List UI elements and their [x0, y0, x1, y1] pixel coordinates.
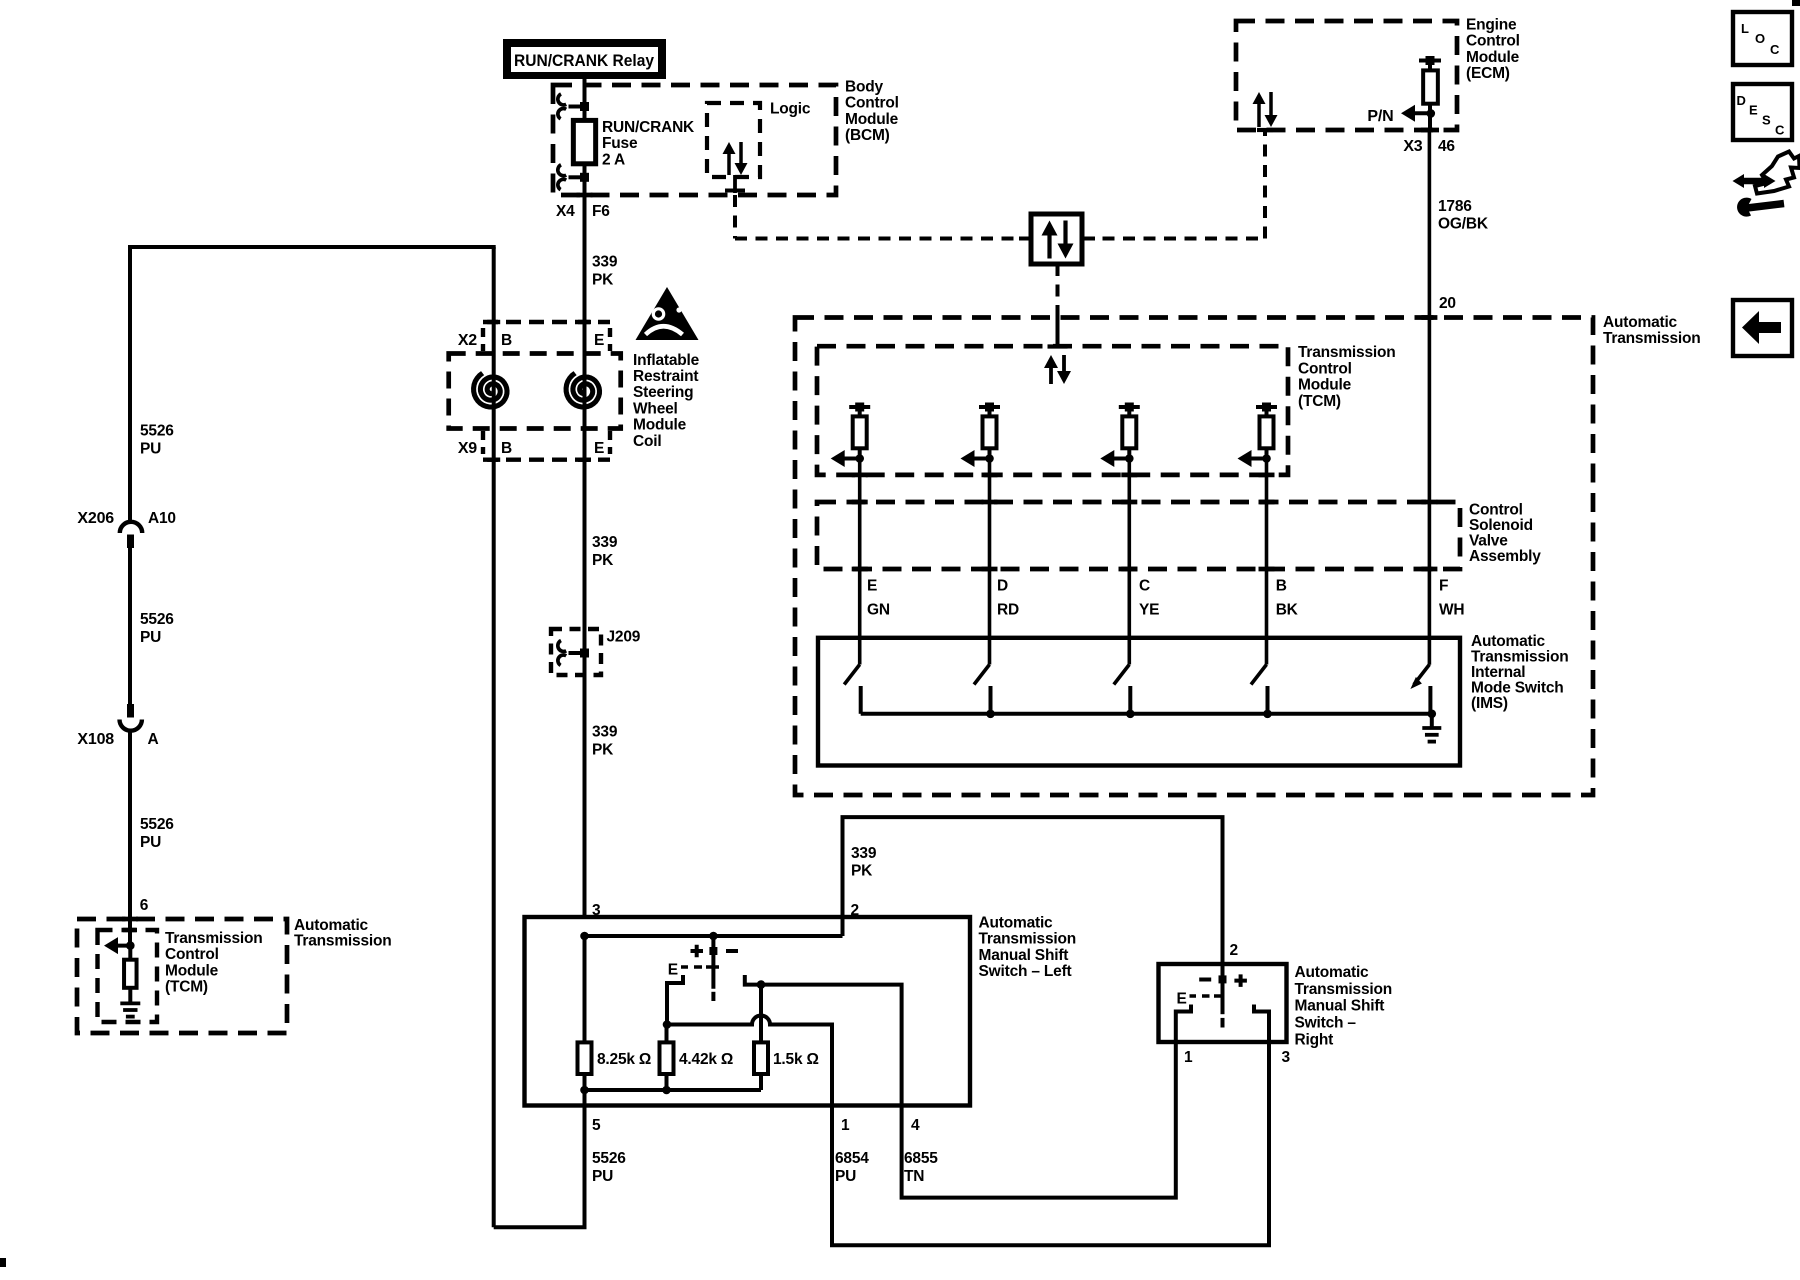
- bus junction: [1263, 710, 1272, 719]
- resistor 4.42k: [665, 1025, 669, 1043]
- Transmission Control Module (TCM) dashed box: [817, 346, 1288, 475]
- svg-text:Control: Control: [165, 946, 219, 963]
- svg-text:PK: PK: [592, 552, 614, 569]
- svg-text:4.42k Ω: 4.42k Ω: [679, 1051, 733, 1068]
- svg-text:Mode Switch: Mode Switch: [1471, 680, 1564, 697]
- svg-text:Fuse: Fuse: [602, 135, 638, 152]
- icon back arrow: [1733, 300, 1792, 356]
- Logic dashed box: [707, 103, 760, 177]
- connector row X9 B E: [483, 458, 610, 462]
- TCM driver resistor 3: [1119, 403, 1140, 459]
- svg-text:Coil: Coil: [633, 433, 661, 450]
- Body Control Module (BCM) dashed box: [553, 85, 836, 195]
- connector X108 pin A: [120, 704, 142, 731]
- TCM output node 1 with arrow: [855, 454, 864, 463]
- Automatic Transmission Manual Shift Switch - Left box: [525, 917, 971, 1106]
- wire E node to pin 1 with hop: [667, 1016, 832, 1106]
- svg-text:Module: Module: [1298, 377, 1352, 394]
- Automatic Transmission dashed box (bottom left): [77, 919, 287, 1033]
- svg-text:(ECM): (ECM): [1466, 65, 1510, 82]
- right rocker right contact to pin 3: [1254, 1005, 1269, 1043]
- IMS switch 2: [974, 665, 991, 714]
- svg-text:RD: RD: [997, 602, 1019, 619]
- svg-text:Right: Right: [1295, 1031, 1334, 1048]
- svg-text:Module: Module: [633, 417, 687, 434]
- svg-text:1786: 1786: [1438, 198, 1472, 215]
- svg-text:5526: 5526: [140, 422, 174, 439]
- relay terminal hook upper (X4): [558, 94, 589, 119]
- RUN/CRANK Relay title box: [503, 39, 666, 79]
- svg-text:X2: X2: [458, 332, 477, 349]
- svg-text:2: 2: [1230, 942, 1238, 959]
- bus junction: [986, 710, 995, 719]
- relay terminal hook lower (F6): [558, 165, 589, 190]
- svg-text:YE: YE: [1139, 602, 1159, 619]
- Automatic Transmission Manual Shift Switch - Right box: [1159, 964, 1287, 1042]
- svg-text:O: O: [1755, 31, 1765, 46]
- svg-text:S: S: [1762, 113, 1771, 128]
- Inflatable Restraint Steering Wheel Module Coil dashed box: [449, 354, 621, 429]
- TCM driver resistor 4: [1256, 403, 1277, 459]
- IMS switch 5 (wiper): [1410, 665, 1430, 714]
- svg-text:Automatic: Automatic: [1295, 964, 1370, 981]
- Control Solenoid Valve Assembly dashed box: [817, 502, 1460, 569]
- IMS switch 1: [844, 665, 861, 714]
- svg-text:Control: Control: [1466, 33, 1520, 50]
- svg-text:PU: PU: [140, 834, 161, 851]
- resistor 8.25k: [583, 936, 587, 1042]
- svg-text:TN: TN: [904, 1168, 924, 1185]
- serial data dashed wire splice to ECM: [1082, 237, 1265, 241]
- wire 5526 PU pin5 to coil branch: [494, 1106, 585, 1228]
- TCM driver resistor 2: [979, 403, 1000, 459]
- IMS common bus: [861, 712, 1432, 716]
- svg-text:Restraint: Restraint: [633, 368, 698, 385]
- right rocker minus: [1199, 978, 1211, 982]
- right rocker actuator: [1221, 964, 1225, 1014]
- svg-text:6855: 6855: [904, 1150, 938, 1167]
- svg-text:Switch –: Switch –: [1295, 1015, 1357, 1032]
- svg-text:Control: Control: [845, 95, 899, 112]
- tick wire exits BCM box: [577, 193, 593, 198]
- bus end dot: [1428, 710, 1437, 719]
- wire 1786 OG/BK ECM to IMS: [1428, 130, 1432, 665]
- wire TCM to IMS 3: [1128, 459, 1132, 665]
- svg-text:339: 339: [851, 845, 877, 862]
- svg-text:339: 339: [592, 253, 618, 270]
- wire rocker to 1.5k: [759, 985, 763, 1043]
- svg-text:WH: WH: [1439, 602, 1464, 619]
- svg-text:Transmission: Transmission: [1603, 330, 1701, 347]
- svg-text:Switch – Left: Switch – Left: [979, 963, 1072, 980]
- svg-text:Transmission: Transmission: [294, 933, 392, 950]
- svg-text:Manual Shift: Manual Shift: [1295, 998, 1385, 1015]
- svg-text:X3: X3: [1403, 138, 1422, 155]
- TCM pull-down resistor: [128, 946, 132, 960]
- TCM input node with arrow: [126, 941, 135, 950]
- svg-text:X108: X108: [77, 731, 114, 748]
- Logic stub to BCM edge: [733, 175, 737, 193]
- coil spiral E: [566, 373, 599, 407]
- ECM pull-up resistor: [1419, 56, 1441, 130]
- svg-text:PU: PU: [835, 1168, 856, 1185]
- svg-text:Wheel: Wheel: [633, 400, 678, 417]
- IMS switch 4: [1251, 665, 1268, 714]
- svg-text:PK: PK: [592, 271, 614, 288]
- F wire ticks: [1421, 315, 1437, 320]
- svg-text:E: E: [668, 962, 678, 979]
- left branch top corner wire 5526 PU: [128, 247, 132, 521]
- svg-text:J209: J209: [607, 629, 641, 646]
- svg-text:1.5k Ω: 1.5k Ω: [773, 1051, 819, 1068]
- svg-text:B: B: [1276, 578, 1287, 595]
- tick wire exits ECM: [1421, 128, 1439, 133]
- svg-text:Control: Control: [1298, 360, 1352, 377]
- svg-text:D: D: [997, 578, 1008, 595]
- svg-text:Automatic: Automatic: [1471, 633, 1546, 650]
- IMS switch 3: [1114, 665, 1131, 714]
- svg-text:E: E: [867, 578, 877, 595]
- icon DESC: [1733, 84, 1792, 140]
- svg-text:Logic: Logic: [770, 101, 811, 118]
- svg-text:Automatic: Automatic: [979, 914, 1054, 931]
- svg-text:PK: PK: [592, 742, 614, 759]
- left rocker minus: [726, 949, 738, 953]
- svg-text:Steering: Steering: [633, 384, 693, 401]
- svg-text:Solenoid: Solenoid: [1469, 517, 1533, 534]
- svg-text:(IMS): (IMS): [1471, 695, 1508, 712]
- svg-text:Valve: Valve: [1469, 533, 1508, 550]
- Automatic Transmission dashed box (main): [795, 318, 1593, 796]
- svg-text:Inflatable: Inflatable: [633, 352, 700, 369]
- svg-text:(BCM): (BCM): [845, 127, 890, 144]
- ECM serial data arrows: [1253, 92, 1278, 127]
- svg-text:6: 6: [140, 897, 149, 914]
- svg-text:PU: PU: [140, 629, 161, 646]
- splice J209: [551, 629, 601, 675]
- svg-text:GN: GN: [867, 602, 890, 619]
- IMS ground: [1430, 714, 1434, 728]
- svg-text:X206: X206: [77, 510, 114, 527]
- svg-text:Transmission: Transmission: [1298, 344, 1396, 361]
- svg-text:E: E: [594, 440, 604, 457]
- svg-text:339: 339: [592, 723, 618, 740]
- svg-text:P/N: P/N: [1367, 108, 1393, 125]
- resistor 1.5k: [754, 1042, 768, 1074]
- left rocker actuator: [711, 936, 715, 989]
- svg-text:X9: X9: [458, 440, 477, 457]
- serial data dashed wire BCM to splice box: [733, 195, 737, 239]
- svg-text:46: 46: [1438, 138, 1455, 155]
- svg-text:F: F: [1439, 578, 1448, 595]
- left rocker plus: [691, 945, 704, 958]
- svg-text:Transmission: Transmission: [1471, 648, 1569, 665]
- svg-text:A: A: [148, 731, 159, 748]
- svg-text:4: 4: [911, 1117, 920, 1134]
- svg-text:D: D: [1737, 93, 1746, 108]
- svg-text:Module: Module: [1466, 49, 1520, 66]
- right rocker plus: [1234, 974, 1247, 987]
- wire 339 PK from relay through fuse: [583, 79, 587, 917]
- bus junction: [1126, 710, 1135, 719]
- svg-text:5: 5: [592, 1117, 601, 1134]
- wire 6855 TN pin4 to right switch pin1: [902, 1042, 1176, 1198]
- TCM output node 3 with arrow: [1125, 454, 1134, 463]
- connector X206 pin A10: [120, 522, 142, 548]
- svg-text:Control: Control: [1469, 501, 1523, 518]
- svg-text:L: L: [1741, 21, 1749, 36]
- Logic serial data arrows: [723, 142, 748, 175]
- right rocker left contact to pin 1: [1176, 1005, 1191, 1043]
- svg-text:C: C: [1770, 42, 1780, 57]
- svg-text:Engine: Engine: [1466, 16, 1517, 33]
- TCM output node 4 with arrow: [1262, 454, 1271, 463]
- icon wrench pointer: [1733, 152, 1800, 217]
- svg-text:Module: Module: [165, 962, 219, 979]
- connector row X2 B E: [483, 320, 610, 324]
- P/N node arrow: [1427, 109, 1436, 118]
- svg-text:(TCM): (TCM): [1298, 393, 1341, 410]
- svg-text:PK: PK: [851, 862, 873, 879]
- airbag warning triangle: [636, 287, 699, 340]
- svg-text:C: C: [1139, 578, 1150, 595]
- svg-text:Internal: Internal: [1471, 664, 1525, 681]
- TCM ground: [128, 988, 132, 1004]
- svg-text:Body: Body: [845, 78, 884, 95]
- fuse F6 RUN/CRANK 2 A: [573, 120, 595, 163]
- svg-text:X4: X4: [556, 203, 575, 220]
- svg-text:2 A: 2 A: [602, 151, 625, 168]
- svg-text:Assembly: Assembly: [1469, 548, 1541, 565]
- wire 6854 PU pin1 to right switch pin3: [832, 1042, 1269, 1245]
- TCM driver resistor 1: [849, 403, 870, 459]
- svg-text:Transmission: Transmission: [1295, 981, 1393, 998]
- svg-text:8.25k Ω: 8.25k Ω: [597, 1051, 651, 1068]
- coil spiral B: [474, 373, 507, 407]
- svg-text:5526: 5526: [140, 611, 174, 628]
- wire 339 PK branch to shift switches: [841, 817, 845, 936]
- svg-text:E: E: [1177, 991, 1187, 1008]
- svg-text:5526: 5526: [592, 1150, 626, 1167]
- icon LOC: [1733, 12, 1792, 65]
- svg-text:Transmission: Transmission: [979, 931, 1077, 948]
- svg-text:Automatic: Automatic: [1603, 314, 1678, 331]
- svg-text:339: 339: [592, 534, 618, 551]
- svg-text:RUN/CRANK Relay: RUN/CRANK Relay: [514, 52, 655, 70]
- svg-text:Manual Shift: Manual Shift: [979, 947, 1069, 964]
- serial data wire splice down to TCM: [1056, 264, 1060, 313]
- Engine Control Module (ECM) dashed box: [1236, 21, 1457, 130]
- wire rocker to pin 4: [761, 985, 902, 1106]
- svg-text:F6: F6: [592, 203, 610, 220]
- svg-text:E: E: [1749, 103, 1758, 118]
- svg-text:RUN/CRANK: RUN/CRANK: [602, 119, 695, 136]
- svg-text:BK: BK: [1276, 602, 1299, 619]
- svg-text:3: 3: [1282, 1049, 1291, 1066]
- wire bus to pin 5: [583, 1090, 587, 1106]
- wire TCM to IMS 1: [858, 459, 862, 665]
- svg-text:1: 1: [841, 1117, 850, 1134]
- wire TCM to IMS 2: [988, 459, 992, 665]
- svg-text:(TCM): (TCM): [165, 979, 208, 996]
- Automatic Transmission Internal Mode Switch (IMS) box: [818, 638, 1460, 766]
- J209 terminal hook: [558, 641, 589, 666]
- svg-text:OG/BK: OG/BK: [1438, 215, 1489, 232]
- left switch bottom bus: [583, 1074, 587, 1090]
- svg-text:B: B: [501, 332, 512, 349]
- svg-text:C: C: [1775, 123, 1785, 138]
- svg-text:20: 20: [1439, 295, 1456, 312]
- svg-text:B: B: [501, 440, 512, 457]
- left rocker right contact: [745, 975, 761, 985]
- svg-text:Module: Module: [845, 111, 899, 128]
- svg-text:6854: 6854: [835, 1150, 869, 1167]
- wire TCM to IMS 4: [1265, 459, 1269, 665]
- svg-text:PU: PU: [140, 441, 161, 458]
- svg-text:A10: A10: [148, 510, 176, 527]
- TCM output node 2 with arrow: [985, 454, 994, 463]
- svg-text:5526: 5526: [140, 816, 174, 833]
- Transmission Control Module (TCM) dashed box bottom left: [98, 930, 158, 1022]
- TCM serial data arrows: [1044, 355, 1071, 384]
- page edge marks: [1792, 0, 1800, 6]
- left switch internal top wire: [585, 934, 843, 938]
- svg-text:Automatic: Automatic: [294, 917, 369, 934]
- svg-text:E: E: [594, 332, 604, 349]
- serial data link splice box: [1019, 237, 1031, 241]
- svg-text:Transmission: Transmission: [165, 930, 263, 947]
- svg-text:PU: PU: [592, 1168, 613, 1185]
- svg-text:1: 1: [1184, 1049, 1193, 1066]
